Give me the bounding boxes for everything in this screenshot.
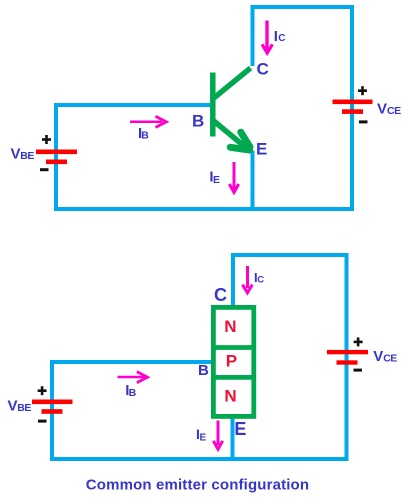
svg-text:B: B	[198, 362, 209, 379]
svg-text:BE: BE	[17, 402, 31, 414]
svg-text:E: E	[200, 432, 207, 443]
svg-text:C: C	[278, 33, 285, 44]
svg-text:B: B	[192, 111, 204, 130]
svg-text:C: C	[257, 274, 264, 285]
svg-text:CE: CE	[387, 105, 401, 117]
svg-text:V: V	[11, 146, 21, 163]
svg-text:C: C	[214, 285, 227, 305]
svg-text:C: C	[257, 59, 269, 78]
svg-text:P: P	[226, 351, 237, 370]
svg-text:CE: CE	[383, 353, 397, 365]
svg-text:V: V	[8, 398, 18, 415]
svg-text:B: B	[141, 130, 149, 142]
svg-text:V: V	[377, 101, 387, 118]
svg-text:V: V	[373, 348, 383, 365]
svg-text:E: E	[234, 419, 246, 439]
svg-text:B: B	[129, 387, 137, 399]
svg-text:E: E	[213, 174, 220, 186]
svg-text:N: N	[224, 387, 236, 406]
svg-text:BE: BE	[20, 150, 34, 162]
svg-text:Common emitter configuration: Common emitter configuration	[86, 477, 309, 494]
svg-text:N: N	[224, 317, 236, 336]
svg-text:E: E	[256, 140, 267, 159]
